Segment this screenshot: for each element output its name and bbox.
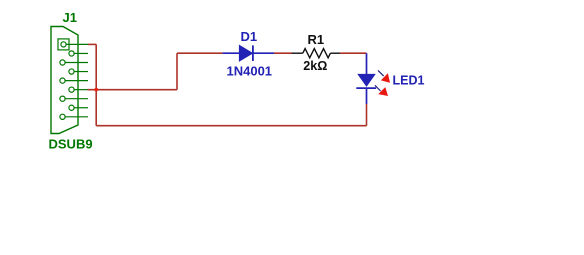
J1 pin 6 (69, 87, 88, 92)
J1 pin 3 (60, 60, 88, 65)
wire left rail vertical (95, 44, 97, 125)
svg-text:1N4001: 1N4001 (227, 63, 273, 78)
junction at left rail and pin6 wire (94, 88, 98, 92)
J1 pin 2 (69, 51, 88, 56)
J1 pin 9 (60, 114, 88, 119)
wire resistor to LED corner (340, 52, 367, 54)
J1 pin 5 (60, 78, 88, 83)
wire diode cathode to resistor (274, 52, 292, 54)
wire riser up (176, 53, 178, 89)
wire pin1 to left rail corner (88, 43, 96, 45)
connector J1 body (51, 27, 78, 134)
svg-text:LED1: LED1 (393, 74, 425, 88)
svg-text:2kΩ: 2kΩ (303, 59, 327, 73)
J1 pin 4 (69, 69, 88, 74)
wire bottom rail (96, 125, 366, 127)
wire LED cathode down (366, 104, 368, 126)
wire pin6 to riser (87, 89, 177, 91)
resistor R1 (292, 49, 341, 58)
wire riser to diode anode (177, 52, 223, 54)
diode D1 (223, 45, 274, 61)
svg-text:D1: D1 (241, 29, 258, 44)
LED1 arrow 1 (378, 70, 390, 82)
J1 pin 8 (69, 105, 88, 110)
J1 pin 1 (58, 39, 88, 50)
LED1 arrow 2 (375, 85, 388, 96)
LED LED1 (356, 53, 376, 104)
J1 pin 7 (60, 96, 88, 101)
svg-text:DSUB9: DSUB9 (49, 136, 93, 151)
svg-text:R1: R1 (308, 32, 325, 47)
svg-text:J1: J1 (63, 10, 77, 25)
